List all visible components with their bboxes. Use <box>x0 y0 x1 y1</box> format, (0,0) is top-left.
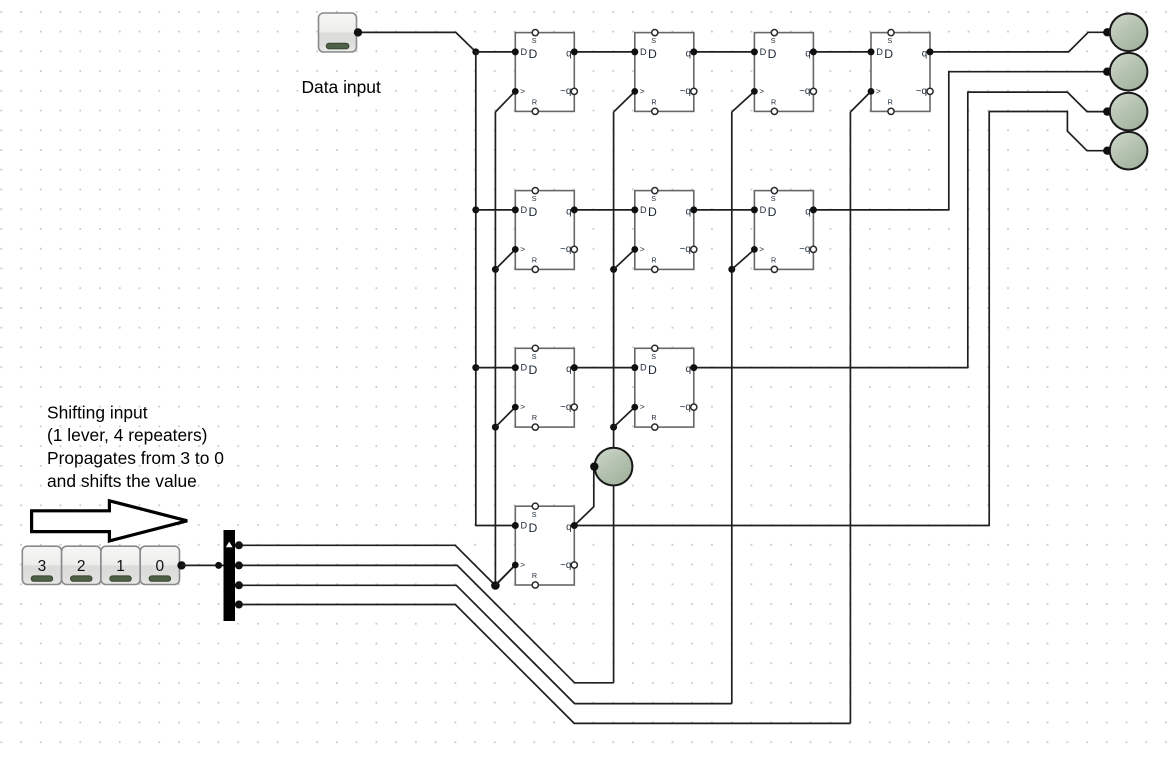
wire: column 3 clock diagonal to row1 clock pin <box>732 91 755 112</box>
D flip-flop FF13 <box>751 29 817 114</box>
wire: row1 q of FF12 to D of FF13 <box>694 51 755 53</box>
wire: column 4 clock vertical <box>849 112 851 723</box>
node: LED4 pin <box>1103 147 1111 155</box>
wire: splitter bit1 to column3 clock <box>239 585 732 703</box>
wire: clock diagonal col1 to row4 clock pin <box>495 565 515 585</box>
node: button output pin <box>354 28 362 36</box>
D flip-flop FF11 <box>512 29 578 114</box>
wire: row3 q of FF31 to D of FF32 <box>574 367 635 369</box>
node: clock junction col1 row3 <box>492 424 499 431</box>
node: column1 clock bottom junction <box>491 581 500 590</box>
node: LED1 pin <box>1103 28 1111 36</box>
node: LED2 pin <box>1103 68 1111 76</box>
wire: splitter bit0 to column4 clock <box>239 605 851 724</box>
svg-text:0: 0 <box>155 558 164 575</box>
lever button 1 <box>101 546 140 584</box>
wire: data tap to row2 D <box>476 209 516 211</box>
svg-text:Shifting input: Shifting input <box>47 402 148 422</box>
node: splitter output pin bit3 <box>235 541 243 549</box>
node: data junction row3 <box>472 364 479 371</box>
lever button 3 <box>22 546 61 584</box>
input button BTN1 (Data input) <box>319 13 357 52</box>
node: lever output pin <box>177 561 185 569</box>
svg-text:3: 3 <box>38 558 47 575</box>
node: clock junction col2 row2 <box>610 266 617 273</box>
D flip-flop FF31 <box>512 345 578 430</box>
label: shifting input annotation <box>47 402 224 490</box>
output LED1 <box>1110 14 1148 52</box>
wire: data input button to first junction <box>358 32 476 52</box>
D flip-flop FF41 <box>512 503 578 588</box>
node: clock junction col3 row2 <box>728 266 735 273</box>
svg-text:1: 1 <box>116 558 125 575</box>
wire: row2 q to LED2 <box>813 72 1106 210</box>
node: splitter output pin bit0 <box>235 601 243 609</box>
lever button 2 <box>62 546 101 584</box>
D flip-flop FF23 <box>751 188 817 273</box>
wire: column 2 clock vertical <box>613 112 615 683</box>
splitter direction triangle <box>226 542 233 548</box>
node: data junction row1 <box>472 48 479 55</box>
wire: lever to splitter <box>182 564 224 566</box>
wire: data vertical bus down to row4 D <box>476 52 516 526</box>
wire: row2 q of FF22 to D of FF23 <box>694 209 755 211</box>
wire: row1 q of FF13 to D of FF14 <box>813 51 871 53</box>
wire: row3 q to LED3 <box>694 92 1107 368</box>
wire: column 2 clock diagonal to row1 clock pin <box>614 91 635 112</box>
svg-text:and shifts the value: and shifts the value <box>47 471 197 491</box>
svg-text:Propagates from 3 to 0: Propagates from 3 to 0 <box>47 448 224 468</box>
node: splitter output pin bit1 <box>235 581 243 589</box>
svg-text:2: 2 <box>77 558 86 575</box>
LED probe P5 on row4 q <box>595 448 633 486</box>
wire: data tap to row3 D <box>476 367 516 369</box>
wire: column 4 clock diagonal to row1 clock pin <box>850 91 871 112</box>
node: LED3 pin <box>1103 107 1111 115</box>
wire: clock diagonal col2 to row2 clock pin <box>614 249 635 269</box>
svg-text:Data input: Data input <box>302 77 381 97</box>
wire: clock diagonal col3 to row2 clock pin <box>732 249 755 269</box>
lever button 0 <box>140 546 179 584</box>
wire: row1 q to LED1 <box>930 32 1107 52</box>
node: splitter output pin bit2 <box>235 561 243 569</box>
output LED4 <box>1110 132 1148 170</box>
splitter / repeater bar SP1 <box>224 530 236 621</box>
D flip-flop FF21 <box>512 188 578 273</box>
node: LED5 pin <box>590 462 598 470</box>
wire: row4 q to LED4 <box>574 112 1106 526</box>
svg-text:(1 lever, 4 repeaters): (1 lever, 4 repeaters) <box>47 425 207 445</box>
wire: row2 q of FF21 to D of FF22 <box>574 209 635 211</box>
block arrow annotation <box>32 501 188 541</box>
wire: clock diagonal col1 to row3 clock pin <box>495 407 515 427</box>
wire: column 1 clock vertical <box>494 112 496 586</box>
node: clock junction col1 row4 <box>492 582 499 589</box>
D flip-flop FF12 <box>631 29 697 114</box>
node: clock junction col1 row2 <box>492 266 499 273</box>
wire: data tap to row1 D <box>476 51 516 53</box>
output LED3 <box>1110 93 1148 131</box>
wire: column1 clock diagonal to row4 clock pin <box>495 565 515 586</box>
node: data junction row2 <box>472 206 479 213</box>
output LED2 <box>1110 53 1148 91</box>
node: clock junction col2 row3 <box>610 424 617 431</box>
wire: clock diagonal col2 to row3 clock pin <box>614 407 635 427</box>
wire: row1 q of FF11 to D of FF12 <box>574 51 635 53</box>
wire: column 3 clock vertical <box>731 112 733 704</box>
wire: splitter bit3 to column1 clock <box>239 545 496 585</box>
wire: clock diagonal col1 to row2 clock pin <box>495 249 515 269</box>
node: splitter input junction <box>215 562 222 569</box>
wire: row4 q to probe LED5 <box>574 467 594 526</box>
wire: splitter bit2 to column2 clock <box>239 565 614 682</box>
D flip-flop FF14 <box>868 29 934 114</box>
wire: column 1 clock diagonal to row1 clock pin <box>495 91 515 112</box>
D flip-flop FF22 <box>631 188 697 273</box>
D flip-flop FF32 <box>631 345 697 430</box>
